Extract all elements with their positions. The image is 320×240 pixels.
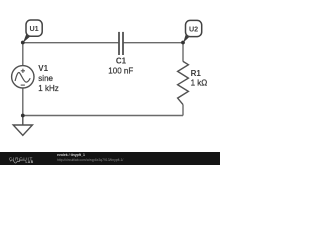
svg-text:U1: U1 xyxy=(29,24,38,33)
node dot U1 xyxy=(21,41,25,45)
svg-text:http://circuitlab.com/c/eqp6x3: http://circuitlab.com/c/eqp6x3q7913/tiny… xyxy=(57,158,123,162)
voltage source V1 (sine) xyxy=(12,66,34,88)
svg-text:sine: sine xyxy=(38,74,53,83)
V1 minus sign xyxy=(21,84,25,86)
node label U1 callout pointer xyxy=(23,33,31,42)
V1 plus sign xyxy=(21,69,25,73)
wire left vertical lower (V1 bottom to ground junction) xyxy=(22,88,24,116)
node dot ground junction xyxy=(21,114,25,118)
ground xyxy=(13,116,32,136)
CircuitLab logo text CIRCUIT xyxy=(9,156,33,161)
svg-text:U2: U2 xyxy=(189,24,198,33)
wire right vertical upper (node U2 to R1 top) xyxy=(182,43,184,62)
svg-text:R1: R1 xyxy=(191,69,202,78)
node label U1 box xyxy=(26,20,42,36)
node label U2 callout pointer xyxy=(183,33,191,42)
watermark title text xyxy=(57,153,85,157)
wire right vertical lower (R1 bottom to bottom wire) xyxy=(182,105,184,116)
svg-text:1 kHz: 1 kHz xyxy=(38,84,58,93)
watermark url text xyxy=(57,158,123,162)
svg-text:C1: C1 xyxy=(116,56,127,65)
CircuitLab logo text LAB xyxy=(26,160,34,164)
wire bottom horizontal (ground junction to bottom-right corner) xyxy=(23,115,183,117)
wire top-right horizontal (C1 right plate to node U2) xyxy=(124,42,184,44)
CircuitLab logo waveform xyxy=(11,160,25,163)
wire top-left horizontal (node U1 to C1 left plate) xyxy=(23,42,119,44)
node label U2 box xyxy=(186,20,202,36)
watermark bar xyxy=(0,152,220,165)
node dot U2 xyxy=(181,41,185,45)
svg-text:evolek / tinypft_1: evolek / tinypft_1 xyxy=(57,153,85,157)
svg-text:100 nF: 100 nF xyxy=(108,66,133,75)
wire left vertical upper (node U1 to V1 top) xyxy=(22,43,24,66)
svg-text:LAB: LAB xyxy=(26,160,34,164)
svg-text:1 kΩ: 1 kΩ xyxy=(191,79,208,88)
resistor R1 zigzag xyxy=(178,61,189,104)
capacitor C1 xyxy=(119,32,123,55)
svg-text:V1: V1 xyxy=(38,64,48,73)
